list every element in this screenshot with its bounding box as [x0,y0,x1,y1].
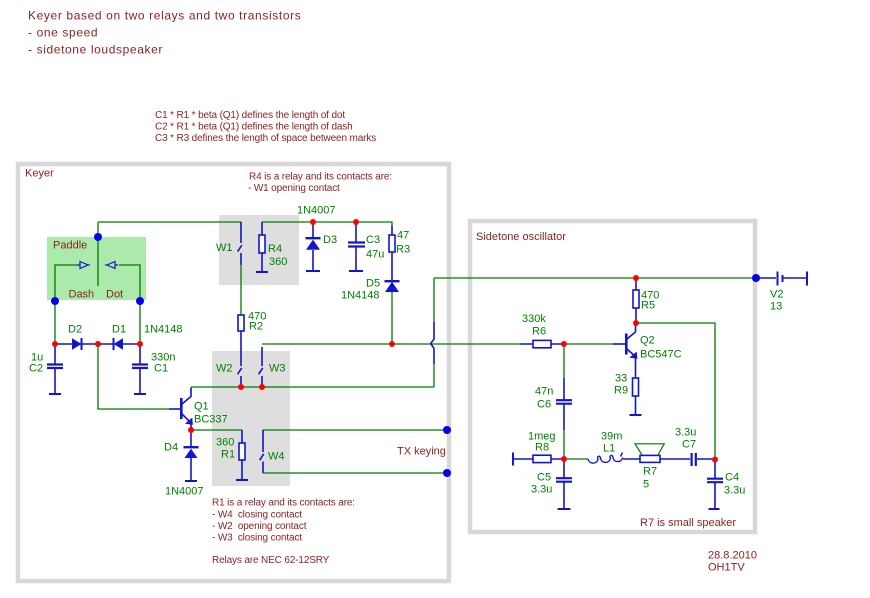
svg-text:R4: R4 [268,243,282,255]
wire crossing vertical green parts [433,278,435,387]
svg-text:W2: W2 [216,363,233,375]
transistor Q1 [169,388,193,431]
svg-text:3.3u: 3.3u [675,427,696,439]
wire diode junction to Q1 base [98,344,169,409]
svg-text:V2: V2 [770,289,783,301]
svg-text:3.3u: 3.3u [531,484,552,496]
speaker R7 [623,444,690,463]
svg-text:C3 * R3 defines the length of: C3 * R3 defines the length of space betw… [155,133,376,144]
junction dots red [52,219,718,463]
diode D1 [114,338,124,350]
svg-text:Paddle: Paddle [53,240,87,252]
svg-text:W1: W1 [216,242,233,254]
inductor L1 [588,453,623,464]
svg-text:Q1: Q1 [194,401,209,413]
svg-text:C2 * R1 * beta (Q1) defines th: C2 * R1 * beta (Q1) defines the length o… [155,122,353,133]
transistor Q2 [613,323,637,378]
svg-text:R2: R2 [249,321,263,333]
svg-text:- W4 closing contact: - W4 closing contact [212,509,302,520]
svg-text:Keyer based on two relays and: Keyer based on two relays and two transi… [28,9,301,23]
svg-text:- W3 closing contact: - W3 closing contact [212,533,302,544]
svg-text:3.3u: 3.3u [724,485,745,497]
svg-text:1N4007: 1N4007 [165,486,204,498]
wire top rail to battery [434,277,756,279]
svg-text:1N4148: 1N4148 [144,324,183,336]
svg-text:R5: R5 [641,300,655,312]
date note [708,550,757,574]
capacitor C7 [692,453,715,466]
svg-text:C6: C6 [537,399,551,411]
wire paddle top rail [98,221,241,223]
svg-text:BC337: BC337 [194,414,228,426]
svg-text:D2: D2 [68,324,82,336]
R4 relay note [248,172,392,195]
paddle arrow dash [77,262,90,269]
svg-text:Relays are NEC 62-12SRY: Relays are NEC 62-12SRY [212,555,330,566]
wire TX keying bottom [263,472,447,474]
capacitor C2 [47,344,63,394]
svg-text:360: 360 [269,256,287,268]
svg-text:Dash: Dash [69,289,95,301]
node TX keying top [443,426,451,434]
node TX keying bottom [443,469,451,477]
svg-text:R7: R7 [643,466,657,478]
capacitor C3 [348,222,365,271]
svg-text:360: 360 [216,437,234,449]
wire supply rail R4 to R3 [262,222,392,227]
svg-text:Q2: Q2 [640,335,655,347]
component labels green [29,205,783,498]
svg-text:D3: D3 [323,234,337,246]
svg-text:- W1 opening contact: - W1 opening contact [248,183,340,194]
svg-text:R3: R3 [396,244,410,256]
svg-text:330k: 330k [522,313,546,325]
wire diode row [55,343,140,345]
diode D5 [385,281,400,292]
wire dash arm [55,265,77,344]
resistor R4 [256,222,268,272]
diode D2 [72,338,82,350]
svg-text:28.8.2010: 28.8.2010 [708,550,757,562]
svg-text:47n: 47n [535,386,553,398]
svg-text:R1: R1 [221,449,235,461]
paddle box [47,237,146,300]
resistor R3 [389,226,395,281]
resistor R8 [513,453,564,466]
battery V2 [756,272,807,286]
wire Q2 collector rail [636,323,715,459]
svg-text:C5: C5 [537,472,551,484]
wire paddle stem [97,222,99,286]
paddle arrow dot [105,262,118,269]
svg-text:47u: 47u [366,249,384,261]
svg-text:C4: C4 [725,472,739,484]
capacitor C1 [132,344,148,394]
svg-text:C1: C1 [154,363,168,375]
diode D3 [306,222,321,271]
svg-text:D4: D4 [164,442,178,454]
svg-text:1N4148: 1N4148 [341,290,380,302]
svg-text:Sidetone oscillator: Sidetone oscillator [476,231,566,243]
svg-text:47: 47 [397,230,409,242]
svg-text:W4: W4 [268,451,285,463]
capacitor C6 [556,378,572,430]
wire TX keying top [263,429,447,431]
svg-text:- W2 opening contact: - W2 opening contact [212,521,307,532]
keyer box frame [18,164,449,581]
wire collector rail [191,386,434,388]
svg-text:5: 5 [643,479,649,491]
wire D5 to junction [391,292,393,344]
svg-text:W3: W3 [269,363,286,375]
wire C6 branch green [563,344,565,459]
svg-text:39m: 39m [601,431,622,443]
wire R6 to Q2 base [564,343,613,345]
svg-text:C7: C7 [682,439,696,451]
capacitor C4 [707,459,723,509]
node dash contact [51,297,59,305]
resistor R1 [236,430,248,480]
node dot contact [136,297,144,305]
svg-text:Dot: Dot [106,289,123,301]
crossing hop blue [431,322,434,364]
switch W3 [259,347,263,387]
svg-text:BC547C: BC547C [640,349,682,361]
svg-text:1N4007: 1N4007 [297,205,336,217]
svg-text:- one speed: - one speed [28,26,98,40]
relay box W2 W3 R1 W4 [212,351,290,486]
switch W4 [260,430,264,473]
svg-text:R4 is a relay and its contacts: R4 is a relay and its contacts are: [249,172,392,183]
formula notes [155,110,376,144]
wire W1 to R2 [240,265,242,315]
svg-text:C2: C2 [29,363,43,375]
wire junction to L1 [564,458,588,460]
svg-text:R6: R6 [532,326,546,338]
svg-text:R1 is a relay and its contacts: R1 is a relay and its contacts are: [212,498,355,509]
svg-text:L1: L1 [603,443,615,455]
svg-text:R7 is small speaker: R7 is small speaker [640,517,736,529]
wire emitter rail to R1 [191,429,242,431]
title text [28,9,301,57]
wire dot arm [119,265,140,344]
resistor R2 [238,315,244,387]
capacitor C5 [556,459,572,509]
svg-text:R8: R8 [535,442,549,454]
R1 relay note [212,498,355,567]
diode D4 [184,430,199,481]
resistor R5 [633,278,639,323]
svg-text:R9: R9 [614,385,628,397]
relay box W1 R4 [219,215,299,285]
node battery rail [752,274,760,282]
svg-text:- sidetone loudspeaker: - sidetone loudspeaker [28,43,163,57]
svg-text:C3: C3 [366,234,380,246]
resistor R6 [520,340,564,347]
wire W3 to R6 [262,343,520,345]
svg-text:OH1TV: OH1TV [708,562,745,574]
svg-text:D5: D5 [366,278,380,290]
svg-text:33: 33 [615,373,627,385]
svg-text:D1: D1 [112,324,126,336]
resistor R9 [630,378,642,415]
svg-text:C1 * R1 * beta (Q1) defines th: C1 * R1 * beta (Q1) defines the length o… [155,110,345,121]
switch W1 [238,222,242,265]
svg-text:13: 13 [770,301,782,313]
svg-text:Keyer: Keyer [25,168,54,180]
svg-text:TX keying: TX keying [397,446,446,458]
sidetone oscillator box frame [470,221,755,532]
node paddle top [94,233,102,241]
